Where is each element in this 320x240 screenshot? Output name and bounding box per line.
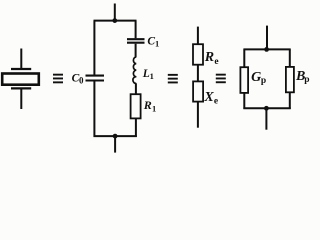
- svg-text:1: 1: [152, 104, 156, 114]
- parallel top junction dot: [264, 47, 269, 52]
- svg-text:R: R: [204, 50, 214, 65]
- capacitor C0 bottom plate: [86, 79, 105, 81]
- right branch wire above Bp: [289, 49, 291, 67]
- conductance Gp box: [240, 67, 248, 93]
- crystal bottom lead wire: [20, 90, 22, 110]
- svg-text:1: 1: [150, 71, 154, 81]
- top rail wire: [94, 20, 137, 22]
- equivalence sign 3: [216, 74, 226, 84]
- crystal bottom electrode plate: [11, 87, 31, 89]
- parallel top rail: [243, 48, 290, 50]
- label C0: [72, 72, 84, 85]
- svg-text:G: G: [251, 70, 261, 85]
- parallel bottom rail: [243, 107, 290, 109]
- left branch wire below Gp: [243, 93, 245, 109]
- top junction dot: [112, 18, 117, 23]
- svg-text:e: e: [214, 57, 218, 67]
- capacitor C1 bottom plate: [127, 42, 145, 44]
- left branch wire above Gp: [243, 49, 245, 67]
- label Xe: [203, 90, 218, 106]
- svg-text:e: e: [214, 96, 218, 106]
- resistor Re box: [193, 44, 203, 64]
- bottom rail wire: [94, 135, 137, 137]
- wire Re to Xe: [197, 65, 199, 82]
- left branch lower wire: [93, 82, 95, 138]
- left branch upper wire: [93, 21, 95, 75]
- svg-text:p: p: [304, 75, 309, 85]
- svg-text:R: R: [143, 98, 152, 112]
- right branch wire below Bp: [289, 92, 291, 109]
- equivalence sign 2: [168, 74, 178, 84]
- parallel section top stub: [266, 26, 268, 50]
- label Gp: [251, 70, 266, 86]
- bottom junction dot: [113, 134, 118, 139]
- resistor R1 box: [131, 94, 141, 118]
- capacitor C1 top plate: [127, 38, 145, 40]
- label C1: [147, 35, 159, 48]
- bottom terminal stub: [114, 136, 116, 153]
- label R1: [143, 98, 157, 113]
- crystal top lead wire: [20, 49, 22, 69]
- svg-text:X: X: [203, 90, 214, 105]
- crystal top electrode plate: [11, 68, 31, 70]
- label L1: [142, 68, 154, 81]
- top terminal stub: [114, 4, 116, 21]
- equivalence sign 1: [53, 74, 63, 84]
- reactance Xe box: [193, 81, 203, 101]
- susceptance Bp box: [286, 67, 294, 92]
- svg-text:1: 1: [155, 39, 159, 49]
- wire R1 to bottom rail: [135, 118, 137, 137]
- series branch top wire: [197, 27, 199, 45]
- series branch bottom wire: [197, 102, 199, 128]
- svg-text:p: p: [261, 76, 266, 86]
- crystal body rectangle: [2, 74, 39, 85]
- right branch upper wire: [135, 21, 137, 39]
- label Bp: [295, 69, 309, 85]
- bottom junction dot: [264, 106, 269, 111]
- wire C1 to L1: [135, 44, 137, 57]
- parallel section bottom stub: [265, 108, 267, 129]
- capacitor C0 top plate: [86, 75, 105, 77]
- label Re: [204, 50, 219, 67]
- svg-text:0: 0: [79, 75, 84, 85]
- inductor L1 coil: [133, 57, 136, 83]
- wire L1 to R1: [135, 83, 137, 94]
